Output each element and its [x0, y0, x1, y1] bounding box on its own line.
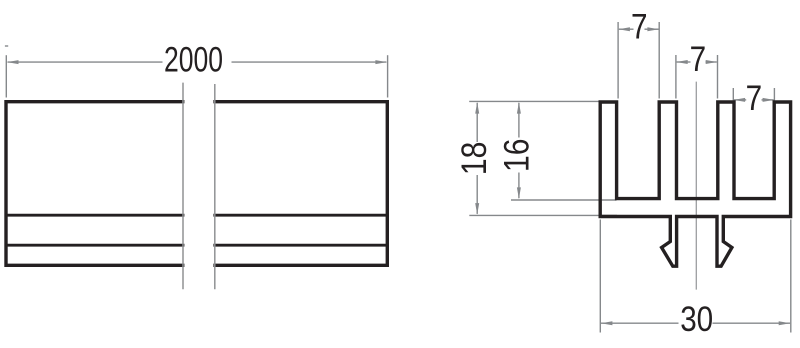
- dimension 2000 dimension line: [8, 61, 387, 63]
- dimension 16 extension line bottom: [511, 199, 617, 201]
- svg-text:18: 18: [455, 142, 494, 176]
- dimension 18 dimension line: [476, 103, 478, 214]
- dimension 7 (channel 1) dimension line: [619, 28, 659, 30]
- svg-text:30: 30: [680, 300, 713, 339]
- dimension 16 arrowheads: [517, 102, 521, 199]
- dimension 2000 extension line left: [5, 46, 8, 98]
- dimension 7 (channel 3) extension lines: [733, 88, 774, 103]
- dimension 16 dimension line: [518, 103, 520, 198]
- break line right: [214, 84, 216, 289]
- dimension 7 (channel 2) arrowheads: [676, 60, 717, 64]
- break line left: [182, 83, 184, 290]
- dimension 7 (channel 2) dimension line: [677, 61, 717, 63]
- dimension 2000 extension line right: [387, 55, 389, 97]
- dimension 7 (channel 3) dimension line: [734, 99, 774, 101]
- dimension 30 extension line left: [599, 220, 601, 333]
- dimension 18 arrowheads: [475, 102, 479, 215]
- svg-text:7: 7: [631, 8, 648, 47]
- side view left segment inner line (barb edge): [6, 244, 184, 247]
- dimension 7 (channel 1) arrowheads: [618, 27, 659, 31]
- side view right segment outline: [213, 102, 387, 266]
- dimension 7 (channel 3) arrowheads: [734, 98, 775, 102]
- side view right segment inner line (barb edge): [213, 244, 387, 247]
- dimension 30 dimension line: [601, 322, 790, 324]
- svg-text:7: 7: [746, 79, 763, 118]
- side view right segment inner line (base bottom): [213, 214, 387, 217]
- centerline of cross-section: [695, 82, 697, 290]
- dimension 30 arrowheads: [601, 321, 790, 325]
- dimension 7 (channel 1) extension lines: [618, 22, 659, 99]
- dimension 18 extension line top (shared with 16): [469, 100, 599, 102]
- side view left segment inner line (base bottom): [6, 214, 184, 217]
- svg-text:7: 7: [690, 40, 707, 79]
- dimension 30 extension line right: [790, 220, 792, 333]
- svg-text:16: 16: [497, 139, 536, 173]
- dimension 18 extension line bottom: [469, 214, 617, 216]
- svg-text:2000: 2000: [164, 41, 223, 80]
- dimension 2000 arrowheads: [7, 60, 387, 64]
- profile cross-section outline: [600, 102, 790, 266]
- side view left segment outline: [6, 102, 184, 266]
- dimension 7 (channel 2) extension lines: [676, 55, 718, 99]
